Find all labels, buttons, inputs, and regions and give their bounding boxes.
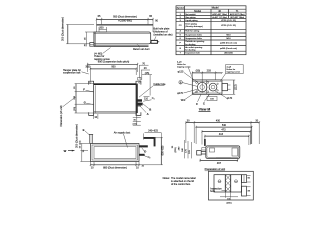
view M: right vertical dim (112) (222, 80, 237, 94)
svg-text:C₂: C₂ (148, 156, 151, 159)
top view: left hanger bracket (90, 43, 94, 47)
view M: label +170 right (215, 91, 233, 100)
svg-text:200 (Duct dimension): 200 (Duct dimension) (62, 17, 65, 41)
detail box: right small boxes and dims (242, 175, 251, 196)
svg-text:(15): (15) (80, 140, 82, 144)
svg-text:110: 110 (144, 97, 149, 100)
dim tick slashes (87, 19, 260, 166)
view M: right attachment (222, 84, 231, 91)
svg-text:413: 413 (219, 133, 224, 136)
front view: service space rotated note (60, 97, 76, 126)
svg-text:(450): (450) (226, 202, 231, 204)
svg-text:(15): (15) (74, 107, 76, 111)
view M: screw holes (196, 82, 219, 93)
svg-text:ADP-40T (9kg): ADP-40T (9kg) (212, 13, 227, 16)
bottom view: unit body (91, 144, 140, 162)
side view: dim 540 (196, 124, 252, 144)
spec table (176, 6, 246, 55)
svg-text:Air supply duct: Air supply duct (114, 131, 131, 134)
svg-text:View M: View M (199, 108, 211, 112)
svg-text:F: F (83, 88, 85, 92)
front view: dim 30 + 950 (88, 66, 137, 82)
view M: note 4-phi5 tapping screw (221, 65, 244, 81)
svg-text:(112): (112) (235, 84, 238, 90)
svg-text:W: W (64, 149, 67, 153)
view M: strip body (192, 80, 222, 94)
svg-text:467: 467 (217, 162, 222, 165)
front view: cable hole (138, 77, 166, 97)
detail box: right compartment (231, 175, 242, 192)
svg-text:A: A (147, 112, 149, 116)
side view: left rotated dims (178, 140, 191, 158)
svg-text:φ125: φ125 (178, 70, 184, 73)
svg-text:990 (Suspension bolts pitch): 990 (Suspension bolts pitch) (98, 61, 130, 64)
svg-text:450×450: 450×450 (224, 52, 233, 55)
svg-text:880 (Duct dimension): 880 (Duct dimension) (103, 166, 127, 169)
svg-text:ADP-63T (9kg): ADP-63T (9kg) (230, 13, 245, 16)
bottom view: drain riser pipe (144, 133, 156, 146)
svg-text:φ450 (Knock out): φ450 (Knock out) (220, 47, 237, 50)
top view: knockout 200 (99, 27, 107, 33)
svg-text:φ170: φ170 (177, 92, 183, 95)
front view: right hanger (136, 81, 141, 84)
svg-text:G: G (179, 48, 181, 50)
bottom view: right vertical dim 600~625 (139, 137, 177, 165)
bottom view: pipe stub C2 (139, 154, 150, 168)
front view: G label (84, 101, 94, 105)
side view: unit end body (206, 146, 240, 159)
top view: dimension 950 duct (97, 15, 159, 24)
side view: dim 473 (202, 128, 250, 144)
svg-text:D: D (144, 150, 146, 154)
svg-text:B: B (149, 107, 151, 111)
svg-text:473: 473 (221, 128, 226, 131)
view M: caption (199, 108, 211, 112)
svg-text:C₁: C₁ (152, 97, 155, 100)
svg-text:Dimension (of unit): Dimension (of unit) (60, 105, 63, 126)
svg-text:240~625: 240~625 (148, 130, 158, 133)
svg-text:Net weight: Net weight (185, 13, 196, 16)
detail box: bottom dims (220, 192, 238, 204)
svg-text:600~625: 600~625 (162, 145, 165, 155)
side view: bottom dim 467 (200, 159, 238, 165)
svg-text:(255): (255) (175, 147, 177, 152)
front view: dim 10 bottom left (94, 114, 98, 119)
view M: label phi170 (177, 89, 198, 95)
bottom view: bottom dim 880 (91, 162, 140, 170)
front view: F label (83, 88, 93, 92)
top view: vertical dim 200 duct (62, 17, 95, 44)
label: return air duct (133, 44, 150, 51)
view M: circle right (209, 83, 217, 91)
detail box: inspection hole label (210, 187, 226, 193)
svg-text:for ducting: for ducting (185, 43, 196, 46)
bottom view: left hanger from below (89, 135, 93, 144)
svg-text:F: F (196, 102, 198, 106)
detail box: left compartment (214, 175, 225, 192)
svg-text:Gas piping: Gas piping (185, 17, 196, 19)
svg-text:C: C (203, 102, 205, 106)
svg-text:suspension bolt: suspension bolt (63, 72, 81, 75)
svg-text:+(1000-900): +(1000-900) (118, 19, 132, 22)
detail box: title (205, 168, 226, 171)
bottom view: E label (83, 128, 90, 135)
front view: A label (139, 105, 149, 116)
svg-text:Outside air opening: Outside air opening (185, 40, 205, 43)
front view: dim 990 suspension bolts pitch (88, 61, 138, 72)
svg-text:Air outlet opening: Air outlet opening (185, 46, 203, 49)
front view: right pipe stubs A B (136, 99, 143, 106)
svg-text:Liquid piping: Liquid piping (185, 20, 198, 22)
detail box: filter strip hatched (225, 175, 230, 192)
svg-text:hole: hole (210, 190, 215, 193)
front view: right stacked dims 70/23 (139, 62, 152, 95)
top view: unit body (94, 25, 153, 47)
svg-text:Notes:: Notes: (163, 177, 171, 180)
view M: top dims (50) 203 (192, 70, 222, 82)
svg-text:(50): (50) (196, 70, 201, 73)
svg-text:Hole for wiring: Hole for wiring (185, 30, 200, 33)
svg-text:Wm: Wm (181, 99, 185, 102)
svg-text:(installed on site): (installed on site) (154, 33, 173, 36)
front view: unit body (94, 84, 138, 113)
svg-text:A-40T (17.5kg): A-40T (17.5kg) (212, 16, 227, 19)
svg-text:430: 430 (216, 119, 221, 122)
svg-text:(Gravity drainage): (Gravity drainage) (185, 25, 203, 28)
svg-text:203: 203 (207, 70, 212, 73)
bottom view: air supply duct label (114, 131, 131, 147)
svg-text:Suspension bolts: Suspension bolts (185, 33, 203, 36)
svg-text:4-φ5: 4-φ5 (227, 65, 232, 68)
svg-text:tapping screw: tapping screw (227, 71, 241, 74)
svg-text:Model: Model (194, 10, 201, 13)
svg-text:200: 200 (99, 27, 104, 30)
note: 4-M5 holes for tapping screw (94, 48, 110, 61)
bottom view: pipe stub D (139, 145, 148, 153)
svg-text:VP25 (O.D. 32): VP25 (O.D. 32) (221, 25, 236, 27)
svg-text:Holes for: Holes for (227, 68, 236, 71)
view M: label B circled (179, 81, 198, 87)
svg-text:for ducting: for ducting (185, 48, 196, 51)
svg-text:φ170: φ170 (226, 97, 232, 100)
svg-text:200 (Duct dimension): 200 (Duct dimension) (75, 124, 78, 148)
bottom view: W arrow (64, 149, 75, 153)
svg-text:950: 950 (111, 66, 116, 69)
view M: drain circle left (197, 82, 207, 93)
view M: leaders to F and C (181, 91, 210, 106)
svg-text:950 (Duct dimension): 950 (Duct dimension) (113, 15, 137, 18)
side view: left fittings (197, 148, 206, 155)
bottom view: dim 240~625 (145, 130, 162, 137)
front view: dim 110 + C1 (143, 97, 154, 102)
detail box: outline (209, 171, 254, 200)
notes text (163, 177, 197, 186)
svg-text:Symbol: Symbol (177, 8, 185, 10)
view M: label phi125 (177, 60, 200, 83)
front view: B label (142, 103, 152, 112)
front view: left hanger (89, 81, 94, 84)
view M: dim 165 below (207, 94, 217, 100)
top view: left small dims (84, 32, 94, 46)
svg-text:E: E (83, 128, 85, 132)
front view: bottom hangers (89, 112, 141, 115)
svg-text:Return air duct: Return air duct (133, 48, 150, 51)
svg-text:Drain piping: Drain piping (185, 23, 197, 26)
side view: top dims 30 430 30 (186, 119, 259, 144)
svg-text:VP25 (O.D. 32): VP25 (O.D. 32) (221, 20, 236, 22)
note: hanger plate for suspension bolt (63, 65, 89, 74)
side view: drain pipe stub vertical (204, 139, 206, 146)
front view: below-corner dims 30/(15) (133, 113, 141, 125)
front view: left dim chain (74, 84, 94, 113)
svg-text:tapping screw: tapping screw (177, 65, 191, 68)
svg-text:Suspension bolts: Suspension bolts (185, 37, 203, 40)
note: bolt hole plate installed on site (154, 27, 173, 40)
svg-text:φ450 (Knock out): φ450 (Knock out) (220, 42, 237, 45)
bottom view: rotated duct dim (75, 124, 90, 162)
svg-text:540: 540 (222, 124, 227, 127)
svg-text:Inspection hole: Inspection hole (185, 52, 200, 55)
svg-text:80T-63T (9kg): 80T-63T (9kg) (230, 17, 244, 19)
svg-text:of the control box.: of the control box. (171, 183, 191, 186)
top view: bolt hole plate (151, 40, 159, 43)
side view: dim 413 (205, 133, 249, 145)
